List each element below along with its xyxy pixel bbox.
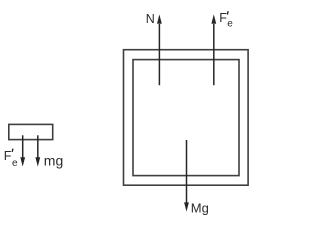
svg-text:N: N [146, 12, 155, 26]
svg-text:F: F [219, 11, 227, 25]
svg-text:mg: mg [44, 153, 63, 169]
svg-text:e: e [12, 158, 18, 169]
svg-text:Mg: Mg [191, 200, 209, 215]
svg-text:e: e [227, 19, 233, 30]
svg-text:F: F [4, 149, 12, 163]
